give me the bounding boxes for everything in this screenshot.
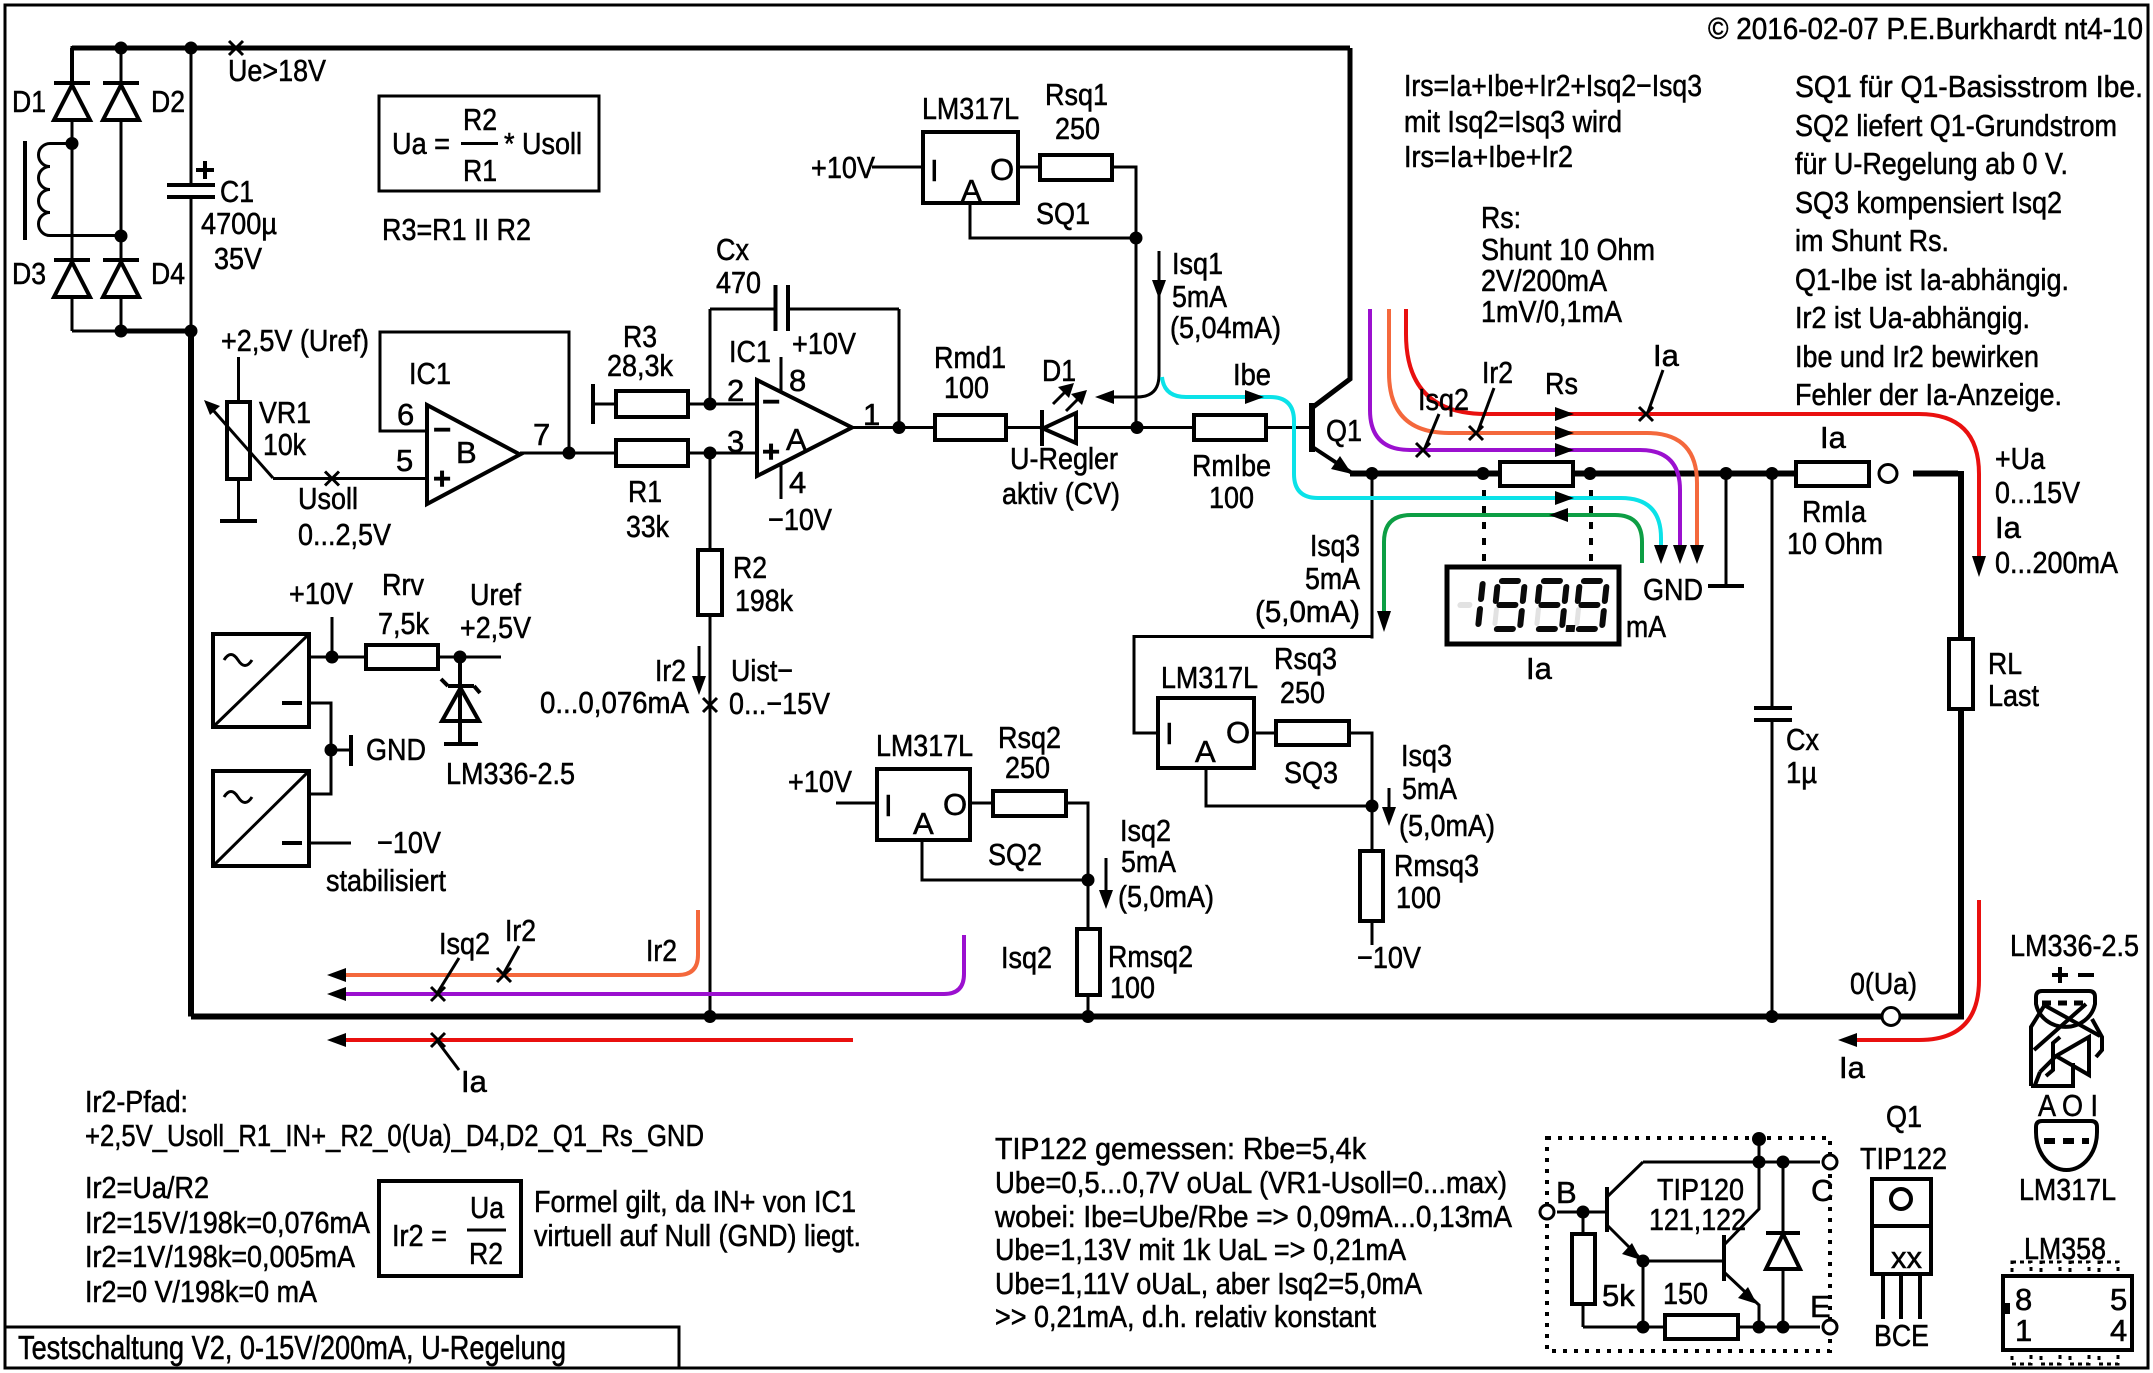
svg-text:Fehler der Ia-Anzeige.: Fehler der Ia-Anzeige. (1795, 377, 2062, 412)
capacitor C1 (167, 48, 277, 331)
resistor R2 (698, 453, 793, 1017)
svg-text:(5,0mA): (5,0mA) (1255, 594, 1360, 629)
svg-text:Ia: Ia (1839, 1050, 1866, 1085)
svg-text:LM317L: LM317L (922, 91, 1019, 126)
svg-text:+Ua: +Ua (1995, 441, 2046, 476)
svg-text:GND: GND (366, 732, 426, 767)
svg-text:IC1: IC1 (729, 334, 771, 369)
svg-text:R2: R2 (463, 102, 497, 137)
svg-text:Ibe und Ir2 bewirken: Ibe und Ir2 bewirken (1795, 339, 2039, 374)
resistor Rmsq2 (1077, 880, 1193, 1017)
svg-text:Testschaltung V2, 0-15V/200mA,: Testschaltung V2, 0-15V/200mA, U-Regelun… (18, 1329, 566, 1366)
svg-text:5: 5 (2110, 1282, 2127, 1317)
svg-text:TIP122: TIP122 (1860, 1141, 1947, 1176)
svg-text:C1: C1 (220, 174, 254, 209)
svg-text:mit Isq2=Isq3 wird: mit Isq2=Isq3 wird (1404, 104, 1622, 139)
text Ir2-Pfad block (85, 1084, 704, 1309)
svg-text:0...2,5V: 0...2,5V (298, 517, 391, 552)
svg-text:Ia: Ia (1995, 510, 2022, 545)
wire left bus (188, 329, 194, 1017)
svg-text:(5,04mA): (5,04mA) (1170, 310, 1281, 345)
node Uist marker on R2 wire (703, 653, 830, 721)
svg-text:A: A (913, 806, 934, 841)
svg-text:Shunt 10 Ohm: Shunt 10 Ohm (1481, 232, 1655, 267)
diode D1 (12, 48, 90, 260)
svg-text:R2: R2 (469, 1236, 503, 1271)
svg-text:Ua: Ua (470, 1190, 505, 1225)
svg-text:+2,5V_Usoll_R1_IN+_R2_0(Ua)_D4: +2,5V_Usoll_R1_IN+_R2_0(Ua)_D4,D2_Q1_Rs_… (85, 1118, 704, 1153)
resistor R3 (593, 319, 710, 424)
svg-text:A O I: A O I (2038, 1088, 2098, 1123)
power supply block +10V (213, 576, 366, 727)
transistor T2 TIP120 (1637, 1162, 1760, 1327)
svg-text:Rsq3: Rsq3 (1274, 641, 1337, 676)
op-amp U1A IC1 (704, 326, 936, 537)
svg-text:Ir2: Ir2 (1482, 355, 1513, 390)
svg-text:0...−15V: 0...−15V (729, 686, 830, 721)
resistor Rmd1 (934, 340, 1042, 440)
svg-text:SQ1: SQ1 (1036, 196, 1090, 231)
svg-text:O: O (990, 152, 1014, 187)
svg-text:mA: mA (1626, 609, 1666, 644)
svg-text:Q1: Q1 (1886, 1099, 1922, 1134)
node 0(Ua) terminal (1850, 966, 1917, 1026)
svg-text:SQ3 kompensiert Isq2: SQ3 kompensiert Isq2 (1795, 185, 2062, 220)
svg-text:150: 150 (1663, 1276, 1708, 1311)
svg-text:1mV/0,1mA: 1mV/0,1mA (1481, 294, 1622, 329)
transistor Q1 (1312, 48, 1362, 474)
wire Isq2 purple path upper (1370, 309, 1687, 564)
svg-text:+10V: +10V (792, 326, 856, 361)
svg-text:Ia: Ia (461, 1064, 488, 1099)
svg-text:Ue>18V: Ue>18V (228, 53, 326, 88)
svg-text:Ir2=Ua/R2: Ir2=Ua/R2 (85, 1170, 209, 1205)
svg-text:0...200mA: 0...200mA (1995, 545, 2118, 580)
svg-text:5mA: 5mA (1172, 279, 1227, 314)
zener diode LM336-2.5 (441, 657, 575, 791)
regulator SQ3 LM317L (1134, 474, 1372, 791)
resistor Rsq2 (922, 720, 1095, 887)
svg-text:Isq2: Isq2 (1418, 382, 1469, 417)
title box (5, 1327, 679, 1368)
svg-text:A: A (786, 422, 807, 457)
ground GND supply (309, 703, 426, 794)
svg-text:Irs=Ia+Ibe+Ir2+Isq2−Isq3: Irs=Ia+Ibe+Ir2+Isq2−Isq3 (1404, 68, 1702, 103)
svg-text:Ir2: Ir2 (655, 653, 686, 688)
svg-text:1: 1 (2015, 1313, 2032, 1348)
ground GND at display (1643, 474, 1744, 608)
resistor Rrv (366, 567, 531, 669)
svg-text:250: 250 (1280, 675, 1325, 710)
svg-text:Ube=1,13V mit 1k UaL => 0,21mA: Ube=1,13V mit 1k UaL => 0,21mA (995, 1232, 1406, 1267)
node Isq1 current arrow (1095, 246, 1281, 404)
svg-text:Isq3: Isq3 (1401, 738, 1452, 773)
wire IC1B pin6 feedback loop (380, 332, 569, 453)
op-amp U1B IC1 (396, 356, 550, 504)
regulator SQ1 LM317L (811, 91, 1090, 231)
wire Usoll (273, 472, 427, 553)
node Ir2 arrow at R2 (540, 646, 706, 720)
node Isq3 current arrow (1382, 738, 1495, 843)
resistor 5k (1572, 1212, 1635, 1327)
svg-text:Ir2=0 V/198k=0 mA: Ir2=0 V/198k=0 mA (85, 1274, 317, 1309)
svg-text:im Shunt Rs.: im Shunt Rs. (1795, 223, 1949, 258)
svg-text:100: 100 (1110, 970, 1155, 1005)
svg-text:Usoll: Usoll (298, 481, 358, 516)
svg-text:(5,0mA): (5,0mA) (1399, 808, 1495, 843)
svg-text:+: + (433, 461, 451, 496)
svg-text:470: 470 (716, 265, 761, 300)
svg-text:Cx: Cx (716, 232, 749, 267)
text TIP120 labels (1649, 1172, 1746, 1237)
wire bottom ground bus (191, 1010, 1882, 1023)
svg-text:4: 4 (789, 465, 806, 500)
svg-text:xx: xx (1891, 1240, 1923, 1275)
svg-text:SQ2: SQ2 (988, 837, 1042, 872)
svg-text:Formel gilt, da IN+ von IC1: Formel gilt, da IN+ von IC1 (534, 1184, 856, 1219)
svg-text:A: A (961, 173, 982, 208)
wire Ia red path lower right (1838, 900, 1979, 1085)
svg-text:B: B (1556, 1175, 1577, 1210)
svg-text:Ibe: Ibe (1233, 357, 1271, 392)
wire IC1B output pin7 (520, 447, 616, 460)
capacitor Cx 470 feedback (710, 232, 899, 428)
wire Isq3 green path (1377, 508, 1642, 632)
svg-text:0(Ua): 0(Ua) (1850, 966, 1917, 1001)
resistor Rsq3 (1206, 641, 1379, 813)
transistor T1 TIP120 (1557, 1162, 1643, 1261)
svg-text:O: O (943, 787, 967, 822)
formula box Ua (379, 96, 599, 191)
svg-text:D1: D1 (1042, 353, 1076, 388)
node Isq2 current arrow (1099, 813, 1214, 914)
svg-text:33k: 33k (626, 509, 669, 544)
svg-text:Irs=Ia+Ibe+Ir2: Irs=Ia+Ibe+Ir2 (1404, 139, 1573, 174)
wire Ia red path bottom left (327, 1033, 853, 1099)
svg-text:5mA: 5mA (1305, 561, 1360, 596)
svg-text:R1: R1 (628, 474, 662, 509)
svg-text:RmIa: RmIa (1802, 494, 1867, 529)
svg-text:−10V: −10V (768, 502, 832, 537)
svg-text:Isq3: Isq3 (1310, 528, 1360, 563)
svg-text:−10V: −10V (1357, 940, 1421, 975)
svg-text:R2: R2 (733, 550, 767, 585)
svg-text:+2,5V: +2,5V (460, 610, 531, 645)
resistor RmIa (1787, 420, 1897, 561)
svg-text:(5,0mA): (5,0mA) (1118, 879, 1214, 914)
svg-text:SQ1 für Q1-Basisstrom Ibe.: SQ1 für Q1-Basisstrom Ibe. (1795, 69, 2143, 104)
svg-text:RL: RL (1988, 646, 2022, 681)
wire Ia red path upper (1406, 309, 1986, 577)
svg-text:Rmsq2: Rmsq2 (1108, 939, 1193, 974)
svg-text:4: 4 (2110, 1313, 2127, 1348)
svg-text:8: 8 (789, 363, 806, 398)
wire top bus Ue (72, 46, 1350, 83)
svg-text:35V: 35V (214, 241, 262, 276)
node Isq3 label near display (1255, 528, 1360, 629)
svg-text:LM336-2.5: LM336-2.5 (446, 756, 575, 791)
wire TIP120 top rail (1643, 1156, 1820, 1169)
svg-text:RmIbe: RmIbe (1192, 448, 1271, 483)
resistor RmIbe (1137, 415, 1310, 515)
svg-text:0...0,076mA: 0...0,076mA (540, 685, 689, 720)
svg-text:1µ: 1µ (1786, 755, 1817, 790)
LED D1 U-Regler (1002, 353, 1137, 511)
svg-text:198k: 198k (735, 583, 793, 618)
svg-text:250: 250 (1005, 750, 1050, 785)
svg-text:GND: GND (1643, 572, 1703, 607)
package Q1 TIP122 (1860, 1099, 1947, 1353)
package LM336-2.5 icon (2010, 928, 2139, 1086)
node Ue>18V marker (228, 41, 326, 88)
svg-text:5: 5 (396, 443, 413, 478)
resistor Rsq1 (970, 77, 1143, 428)
svg-text:7: 7 (533, 417, 550, 452)
svg-text:D2: D2 (151, 84, 185, 119)
resistor Rs shunt (1500, 366, 1578, 486)
svg-text:8: 8 (2015, 1282, 2032, 1317)
svg-text:Isq2: Isq2 (439, 926, 490, 961)
svg-text:I: I (930, 153, 939, 188)
svg-text:3: 3 (727, 424, 744, 459)
svg-text:−: − (433, 412, 451, 447)
power supply block -10V (213, 771, 446, 898)
svg-text:6: 6 (397, 397, 414, 432)
svg-text:Ube=0,5...0,7V oUaL (VR1-Usoll: Ube=0,5...0,7V oUaL (VR1-Usoll=0...max) (995, 1165, 1507, 1200)
svg-text:Isq1: Isq1 (1172, 246, 1223, 281)
package LM317L icon (2019, 1088, 2116, 1207)
svg-text:Ir2=1V/198k=0,005mA: Ir2=1V/198k=0,005mA (85, 1239, 355, 1274)
svg-text:Rmsq3: Rmsq3 (1394, 848, 1479, 883)
wire emitter bus with Rs (1350, 467, 1796, 480)
svg-text:LM358: LM358 (2024, 1231, 2106, 1266)
svg-text:* Usoll: * Usoll (504, 126, 582, 161)
svg-text:Ia: Ia (1653, 338, 1680, 373)
svg-text:Ir2-Pfad:: Ir2-Pfad: (85, 1084, 188, 1119)
wire Ibe cyan path (1162, 357, 1668, 564)
svg-text:I: I (884, 788, 893, 823)
svg-text:Uref: Uref (470, 577, 521, 612)
svg-text:−10V: −10V (377, 825, 441, 860)
svg-text:Last: Last (1988, 678, 2039, 713)
regulator SQ2 LM317L (788, 728, 1042, 872)
resistor Rmsq3 (1357, 806, 1479, 975)
node main wire dot at D1/SQ1 (1131, 421, 1144, 434)
svg-text:D4: D4 (151, 256, 185, 291)
svg-text:Rs: Rs (1545, 366, 1578, 401)
svg-text:© 2016-02-07 P.E.Burkhardt nt4: © 2016-02-07 P.E.Burkhardt nt4-10 (1708, 11, 2143, 46)
potentiometer VR1 (204, 395, 311, 521)
svg-text:>> 0,21mA, d.h. relativ konsta: >> 0,21mA, d.h. relativ konstant (995, 1299, 1376, 1334)
svg-text:R1: R1 (463, 153, 497, 188)
resistor 150 (1663, 1276, 1738, 1339)
text Rs shunt info (1481, 200, 1655, 329)
svg-text:Rrv: Rrv (382, 567, 424, 602)
svg-text:O: O (1226, 715, 1250, 750)
svg-text:+10V: +10V (289, 576, 353, 611)
svg-text:VR1: VR1 (259, 395, 311, 430)
svg-text:100: 100 (1209, 480, 1254, 515)
wire dashed sense lines to meter (1484, 490, 1591, 566)
svg-text:Ir2: Ir2 (505, 913, 536, 948)
svg-text:−: − (762, 384, 780, 419)
svg-text:Ia: Ia (1820, 420, 1847, 455)
svg-text:Q1: Q1 (1326, 413, 1362, 448)
svg-text:+10V: +10V (811, 150, 875, 185)
svg-text:stabilisiert: stabilisiert (326, 863, 446, 898)
svg-text:für U-Regelung ab 0 V.: für U-Regelung ab 0 V. (1795, 146, 2068, 181)
svg-text:LM336-2.5: LM336-2.5 (2010, 928, 2139, 963)
svg-text:E: E (1810, 1289, 1831, 1324)
svg-text:Isq2: Isq2 (1120, 813, 1171, 848)
svg-text:121,122: 121,122 (1649, 1202, 1746, 1237)
svg-text:2: 2 (727, 373, 744, 408)
svg-text:C: C (1811, 1173, 1833, 1208)
wire TIP120 bottom rail (1583, 1321, 1820, 1334)
node junction dots bridge (66, 42, 198, 338)
svg-text:Ir2 ist Ua-abhängig.: Ir2 ist Ua-abhängig. (1795, 300, 2030, 335)
diode TIP120 internal (1766, 1162, 1800, 1327)
svg-text:Ube=1,11V oUaL, aber Isq2=5,0m: Ube=1,11V oUaL, aber Isq2=5,0mA (995, 1266, 1422, 1301)
svg-text:Rs:: Rs: (1481, 200, 1521, 235)
wire Ir2 orange path upper (1389, 309, 1704, 564)
svg-text:7,5k: 7,5k (378, 606, 429, 641)
meter 7-segment digits (1455, 578, 1611, 632)
wire Ir2 orange path lower left (327, 910, 698, 982)
svg-text:Q1-Ibe ist Ia-abhängig.: Q1-Ibe ist Ia-abhängig. (1795, 262, 2069, 297)
formula box Ir2 (379, 1181, 861, 1276)
TIP120 internal schematic dashed box (1547, 1132, 1830, 1351)
svg-text:5mA: 5mA (1121, 844, 1176, 879)
svg-text:Ir2 =: Ir2 = (392, 1218, 447, 1253)
diode D2 (103, 48, 185, 260)
svg-text:2V/200mA: 2V/200mA (1481, 263, 1607, 298)
svg-text:B: B (456, 435, 477, 470)
svg-text:Cx: Cx (1786, 722, 1819, 757)
resistor RL Last (1900, 639, 2039, 1017)
svg-text:250: 250 (1055, 111, 1100, 146)
wire Isq2 purple path lower left (327, 926, 1052, 1001)
svg-text:+10V: +10V (788, 764, 852, 799)
svg-text:LM317L: LM317L (2019, 1172, 2116, 1207)
svg-text:SQ3: SQ3 (1284, 755, 1338, 790)
svg-text:R3=R1 II R2: R3=R1 II R2 (382, 212, 531, 247)
svg-text:4700µ: 4700µ (201, 206, 277, 241)
diode D3 (12, 256, 90, 331)
svg-text:Ir2: Ir2 (646, 933, 677, 968)
svg-text:+: + (762, 434, 780, 469)
svg-text:I: I (1165, 716, 1174, 751)
svg-text:IC1: IC1 (409, 356, 451, 391)
wire +Ua output to RL (1913, 441, 2118, 639)
svg-text:D1: D1 (12, 84, 46, 119)
package LM358 DIP8 (2003, 1231, 2132, 1364)
svg-text:LM317L: LM317L (876, 728, 973, 763)
svg-text:10 Ohm: 10 Ohm (1787, 526, 1883, 561)
wire bridge bottom (72, 330, 191, 333)
svg-text:LM317L: LM317L (1161, 660, 1258, 695)
svg-text:0...15V: 0...15V (1995, 475, 2080, 510)
svg-text:Ua =: Ua = (392, 126, 450, 161)
svg-text:100: 100 (944, 370, 989, 405)
svg-text:D3: D3 (12, 256, 46, 291)
meter display Ia 199.9 (1447, 567, 1666, 686)
text SQ explanation block (1795, 69, 2143, 412)
svg-text:BCE: BCE (1874, 1318, 1929, 1353)
svg-text:Ia: Ia (1526, 651, 1553, 686)
resistor R1 (616, 440, 710, 544)
svg-text:wobei: Ibe=Ube/Rbe => 0,09mA..: wobei: Ibe=Ube/Rbe => 0,09mA...0,13mA (994, 1199, 1512, 1234)
svg-text:U-Regler: U-Regler (1010, 441, 1118, 476)
svg-text:Ir2=15V/198k=0,076mA: Ir2=15V/198k=0,076mA (85, 1205, 370, 1240)
svg-text:Uist−: Uist− (731, 653, 793, 688)
capacitor Cx 1u (1754, 474, 1819, 1017)
svg-text:TIP122 gemessen: Rbe=5,4k: TIP122 gemessen: Rbe=5,4k (995, 1131, 1366, 1166)
diode D4 (103, 256, 185, 331)
svg-text:SQ2 liefert Q1-Grundstrom: SQ2 liefert Q1-Grundstrom (1795, 108, 2117, 143)
svg-text:+2,5V (Uref): +2,5V (Uref) (221, 323, 369, 358)
svg-text:virtuell auf Null (GND) liegt.: virtuell auf Null (GND) liegt. (534, 1218, 861, 1253)
svg-text:10k: 10k (263, 427, 306, 462)
wire +2,5V Uref to VR1 (221, 323, 369, 402)
svg-text:Isq2: Isq2 (1001, 940, 1052, 975)
text TIP122 measurement block (994, 1131, 1512, 1334)
svg-text:28,3k: 28,3k (607, 348, 673, 383)
svg-text:5mA: 5mA (1402, 771, 1457, 806)
svg-text:100: 100 (1396, 880, 1441, 915)
svg-text:Rsq1: Rsq1 (1045, 77, 1108, 112)
svg-text:A: A (1195, 734, 1216, 769)
svg-text:aktiv (CV): aktiv (CV) (1002, 476, 1120, 511)
node TIP120 terminals (1540, 1155, 1837, 1334)
transformer T1 secondary (25, 141, 121, 240)
svg-text:5k: 5k (1602, 1278, 1635, 1313)
text Irs formulas (1404, 68, 1702, 174)
